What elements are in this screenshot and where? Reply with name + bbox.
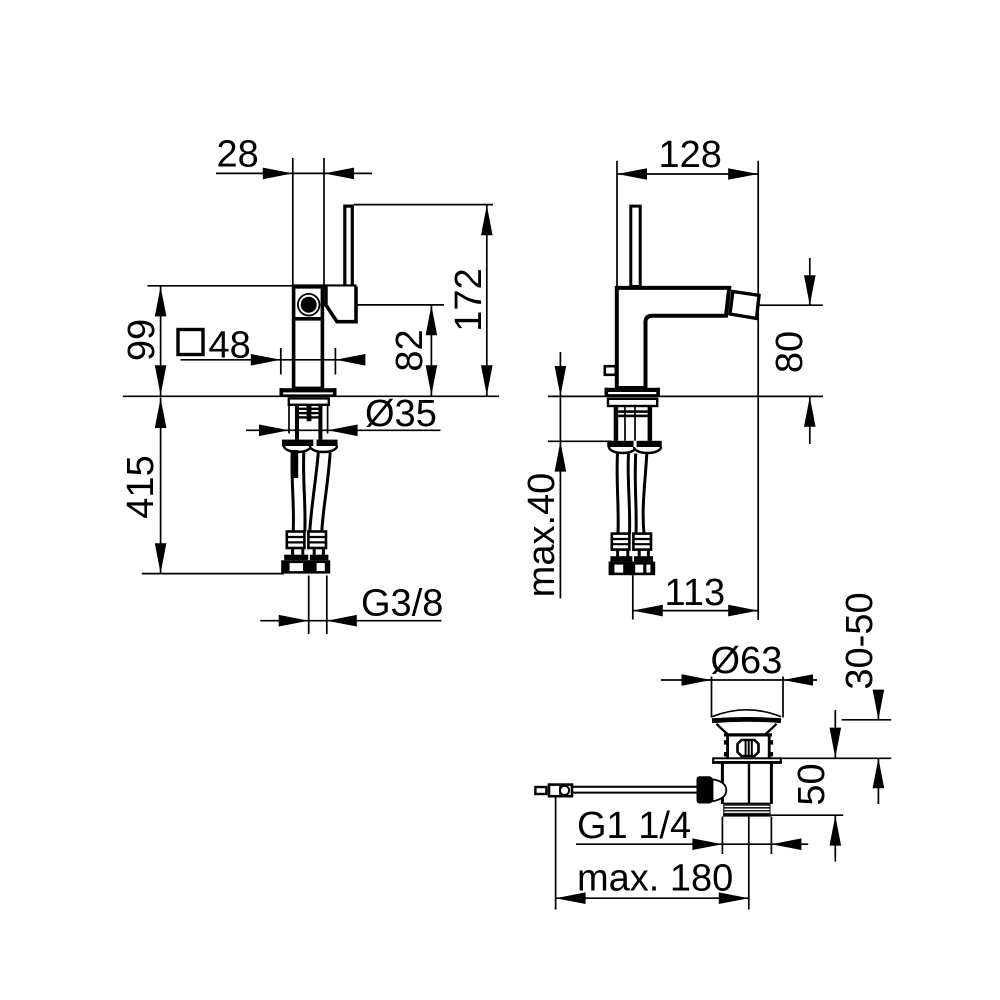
extension line right of 128 (757, 161, 759, 620)
dimension 30-50 upper line (877, 691, 879, 720)
rod tip (535, 787, 546, 794)
cap taper right (766, 724, 777, 734)
flange arc right (634, 447, 661, 453)
dimension 99 line (160, 286, 162, 396)
dimension G1 1/4 right arrow (771, 838, 801, 850)
shank rung 3 (299, 416, 318, 418)
threaded shank front right wall (318, 405, 322, 439)
pull rod bottom line (573, 792, 698, 794)
dimension 82 top arrow (426, 305, 438, 335)
threaded shank front left wall (295, 405, 299, 439)
fitting nut B (630, 562, 655, 576)
hose 2 right wall (322, 453, 330, 532)
hose B sleeve (633, 534, 651, 550)
extension line left of O35 (288, 406, 290, 434)
dimension O35 right arrow (328, 425, 358, 437)
ball joint block (697, 776, 713, 803)
dimension 80 down arrow (804, 275, 816, 305)
faucet body side (617, 288, 729, 388)
dimension O63 line (661, 679, 817, 681)
dimension 172 bottom arrow (481, 365, 493, 395)
dimension O35 left arrow (259, 425, 289, 437)
extension line at spout level (82 top tick) (357, 304, 444, 306)
dimension 82 bottom arrow (426, 365, 438, 395)
hose nut arc left (284, 446, 311, 452)
fitting window A (614, 565, 623, 573)
dimension 172 top arrow (481, 205, 493, 235)
hose nut band front (282, 440, 338, 447)
dome rim band (712, 719, 781, 720)
fitting window B (635, 565, 643, 573)
dimension 28 line (216, 172, 372, 174)
svg-text:max. 180: max. 180 (577, 858, 733, 900)
rod end block (549, 785, 572, 797)
extension line body top left (99 top tick) (148, 285, 293, 287)
dimension max.40 line (559, 352, 561, 598)
fitting nut left (281, 560, 309, 573)
svg-text:172: 172 (448, 268, 490, 331)
extension line right of 28 (323, 158, 325, 286)
drain body left wall (721, 763, 724, 804)
hose A right wall (628, 454, 630, 534)
svg-text:28: 28 (217, 134, 259, 176)
extension line hose end left (415 bottom tick) (142, 573, 284, 575)
svg-text:415: 415 (120, 455, 162, 518)
hose 1 sleeve (287, 532, 305, 549)
hose A sleeve (612, 534, 630, 550)
hose A left wall (617, 454, 618, 534)
fitting collar right (310, 555, 329, 561)
drain body center line (748, 763, 750, 804)
svg-text:G3/8: G3/8 (361, 583, 443, 625)
shank side right wall (648, 406, 653, 441)
dimension 30-50 up arrow (873, 758, 885, 788)
lever bar front (345, 206, 353, 286)
extension line left of 28 (292, 158, 294, 286)
dimension O63 right arrow (783, 674, 813, 686)
dimension 50 down arrow (830, 728, 842, 758)
dimension 113 line (633, 610, 758, 612)
dimension G3/8 left arrow (279, 615, 309, 627)
fitting nut right (308, 560, 330, 573)
faucet body front (294, 287, 323, 389)
dimension 50 up arrow (830, 816, 842, 846)
fitting nut A (609, 562, 633, 576)
fitting collar B (634, 556, 653, 561)
dimension 415 top arrow (155, 398, 167, 428)
extension line left of O63 (711, 677, 713, 718)
svg-text:50: 50 (791, 763, 833, 805)
svg-text:128: 128 (659, 134, 722, 176)
svg-text:G1 1/4: G1 1/4 (577, 805, 691, 847)
hose A lower stub (616, 550, 619, 557)
extension line left of G3/8 (308, 576, 310, 635)
dimension 28 right arrow (324, 168, 354, 180)
dimension 48 line (181, 359, 363, 361)
dimension 82 line (430, 305, 432, 396)
shank inner line 1 (624, 406, 626, 441)
dimension max.40 up arrow (555, 442, 567, 472)
fitting collar left (284, 555, 308, 561)
handle block front (326, 287, 356, 322)
dimension G1 1/4 line (576, 843, 808, 845)
dimension 113 left arrow (633, 605, 663, 617)
pull rod stub front (291, 450, 298, 478)
dimension 50 lower line (834, 815, 836, 861)
dimension 415 bottom arrow (155, 543, 167, 573)
extension line right of O63 (782, 677, 784, 718)
handle screw disc (301, 297, 317, 313)
dimension 30-50 lower line (877, 758, 879, 804)
hose nut arc right (310, 446, 337, 452)
shank band 2 (618, 415, 647, 418)
neck right wall (768, 735, 771, 759)
handle screw ring (298, 294, 320, 316)
dimension 48 left arrow (251, 354, 281, 366)
pull rod tab (605, 366, 616, 375)
extension line left of 128 (616, 161, 618, 288)
dimension 128 right arrow (728, 168, 758, 180)
extension line right of G3/8 (326, 576, 328, 635)
fitting collar A (610, 556, 632, 561)
shank rung 1 (299, 408, 318, 410)
escutcheon side (608, 399, 657, 406)
dimension 99 top arrow (155, 286, 167, 316)
hose B lower stub (638, 550, 641, 557)
dimension O35 line (246, 429, 441, 431)
dimension 50 upper line (834, 710, 836, 758)
svg-text:Ø63: Ø63 (711, 640, 783, 682)
shank inner line 2 (634, 406, 636, 441)
dimension O63 left arrow (682, 674, 712, 686)
svg-text:113: 113 (665, 572, 726, 614)
neck rib left (724, 740, 727, 744)
escutcheon front (289, 398, 329, 404)
drain body right wall (770, 763, 773, 804)
neck rib right (770, 740, 773, 744)
dimension 48 right arrow (335, 354, 365, 366)
rod end circle (560, 786, 569, 795)
overflow slot (738, 740, 759, 756)
dimension 113 right arrow (728, 605, 758, 617)
body divider line (292, 317, 324, 321)
hose B right wall (643, 454, 647, 534)
dimension max.180 left arrow (556, 892, 586, 904)
aerator tip (730, 292, 759, 319)
ball joint ball (713, 779, 727, 801)
dimension 128 line (617, 173, 758, 175)
dimension max.180 right arrow (719, 892, 749, 904)
extension line right of G1 1/4 (770, 817, 772, 855)
hose 1 lower stub (291, 548, 294, 555)
extension line at lever top (172 top tick) (354, 204, 493, 206)
tick 30-50 top (842, 719, 892, 721)
neck left wall (726, 735, 729, 759)
hose 1 right wall (304, 453, 306, 532)
base plate front (280, 388, 337, 392)
dimension max.180 line (556, 897, 749, 899)
extension line left of max.180 (555, 797, 557, 910)
dimension G3/8 line (260, 620, 441, 622)
dimension 80 up arrow (804, 397, 816, 427)
shank center post (307, 405, 312, 421)
dimension max.40 down arrow (555, 366, 567, 396)
flange arc left (609, 447, 636, 453)
tick 50 bottom (771, 814, 844, 816)
shank rung 2 (299, 412, 318, 414)
dimension G1 1/4 left arrow (692, 838, 722, 850)
thread band (723, 804, 770, 816)
hose 2 left wall (310, 453, 319, 532)
thread top edge (723, 803, 771, 805)
tick 30-50 bottom / deck level line (781, 757, 891, 759)
fitting window right (317, 563, 325, 571)
hose B left wall (634, 454, 638, 534)
svg-text:80: 80 (769, 331, 811, 373)
pull rod top line (573, 786, 698, 788)
hose 1 left wall (292, 453, 294, 532)
dimension 80 upper line (809, 258, 811, 305)
max.40 bottom tick (548, 440, 612, 442)
shank band 1 (618, 410, 647, 413)
extension line 113 (632, 575, 634, 619)
extension line left of 48 (280, 348, 282, 375)
shank side left wall (614, 406, 619, 441)
svg-text:99: 99 (121, 319, 163, 361)
lever bar side (631, 206, 640, 286)
dimension 80 lower line (809, 397, 811, 444)
fitting window left (290, 563, 303, 571)
dimension 128 left arrow (617, 168, 647, 180)
thread bottom edge (723, 814, 771, 816)
extension line center of max.180 (748, 817, 750, 910)
neck shoulder line (724, 733, 772, 736)
80 top tick (758, 304, 823, 306)
dimension G3/8 right arrow (327, 615, 357, 627)
dimension 28 left arrow (263, 168, 293, 180)
hose 2 sleeve (308, 532, 326, 549)
mounting surface line right view (548, 395, 823, 397)
drain cap dome (712, 710, 781, 717)
dimension 99 bottom arrow (155, 365, 167, 395)
flange band side (607, 441, 661, 447)
svg-text:82: 82 (389, 329, 431, 371)
mounting surface line left view (123, 395, 499, 397)
base plate side (605, 388, 660, 392)
square symbol of 48 (178, 330, 203, 355)
body top thick line (292, 284, 357, 288)
svg-text:max.40: max.40 (521, 473, 563, 598)
hose 2 lower stub (313, 548, 316, 555)
cap taper left (717, 724, 728, 734)
dimension 30-50 down arrow (873, 690, 885, 720)
dimension 415 line (160, 398, 162, 574)
extension line right of O35 (327, 406, 329, 434)
extension line right of 48 (334, 348, 336, 375)
svg-text:30-50: 30-50 (839, 592, 881, 689)
dimension 172 line (486, 205, 488, 396)
deck plate (713, 758, 781, 763)
svg-text:Ø35: Ø35 (365, 393, 437, 435)
extension line left of G1 1/4 (721, 817, 723, 855)
